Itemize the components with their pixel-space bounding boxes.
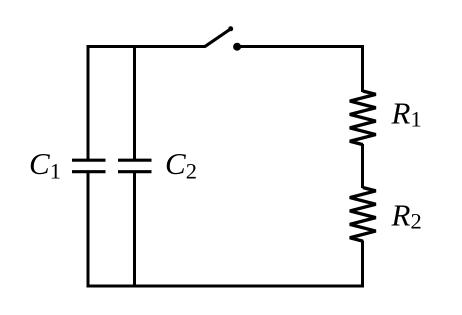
capacitor C2 bottom plate	[118, 170, 152, 173]
wire C2 branch lower	[133, 171, 136, 288]
wire bottom	[87, 285, 364, 288]
switch blade tip dot	[228, 26, 233, 31]
svg-text:C1: C1	[29, 146, 61, 184]
svg-text:R2: R2	[391, 198, 422, 234]
switch S1 blade	[205, 29, 231, 47]
wire left vertical lower	[87, 171, 90, 288]
wire right vertical middle	[361, 144, 364, 188]
resistor R2	[350, 188, 376, 242]
wire left vertical upper	[87, 45, 90, 160]
wire C2 branch upper	[133, 45, 136, 160]
switch contact dot	[233, 43, 241, 51]
capacitor C2 top plate	[118, 159, 152, 162]
wire right vertical upper	[361, 45, 364, 92]
wire top-right segment	[237, 45, 364, 48]
svg-text:R1: R1	[391, 96, 422, 132]
capacitor C1 bottom plate	[72, 170, 106, 173]
wire top-left segment	[87, 45, 206, 48]
wire right vertical lower	[361, 241, 364, 288]
svg-text:C2: C2	[165, 146, 197, 184]
capacitor C1 top plate	[72, 159, 106, 162]
resistor R1	[350, 91, 376, 145]
